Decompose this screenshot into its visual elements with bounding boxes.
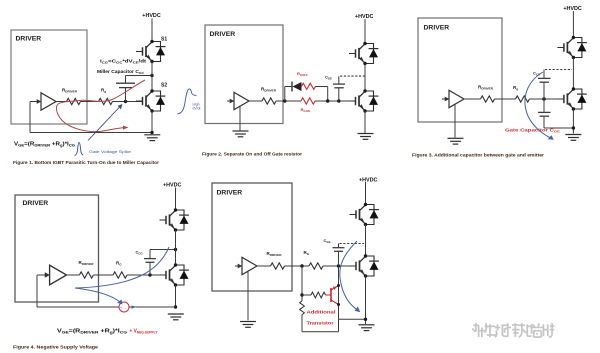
svg-text:Figure 3. Additional capacitor: Figure 3. Additional capacitor between g… [412, 153, 544, 158]
svg-text:dV/dt: dV/dt [193, 107, 201, 111]
svg-text:Gate Voltage Spike: Gate Voltage Spike [89, 149, 131, 154]
svg-text:Transistor: Transistor [307, 321, 334, 326]
svg-text:Figure 1. Bottom IGBT Parasiti: Figure 1. Bottom IGBT Parasitic Turn-On … [13, 160, 159, 166]
svg-text:DRIVER: DRIVER [16, 36, 42, 43]
svg-text:DRIVER: DRIVER [210, 31, 236, 38]
svg-text:DRIVER: DRIVER [217, 190, 243, 197]
svg-text:Figure 2. Separate On and Off: Figure 2. Separate On and Off Gate resis… [202, 152, 302, 158]
svg-text:+HVDC: +HVDC [142, 13, 161, 19]
svg-text:+HVDC: +HVDC [163, 183, 182, 189]
svg-text:DRIVER: DRIVER [424, 25, 450, 32]
svg-text:Figure 4. Negative Supply Volt: Figure 4. Negative Supply Voltage [13, 345, 98, 351]
svg-text:+HVDC: +HVDC [355, 14, 374, 20]
svg-text:S1: S1 [161, 37, 167, 43]
svg-text:S2: S2 [161, 83, 167, 89]
svg-text:Additional: Additional [307, 310, 336, 315]
svg-text:DRIVER: DRIVER [23, 200, 49, 207]
svg-text:+HVDC: +HVDC [359, 178, 378, 184]
svg-text:+: + [120, 306, 122, 310]
svg-text:+HVDC: +HVDC [563, 6, 582, 12]
